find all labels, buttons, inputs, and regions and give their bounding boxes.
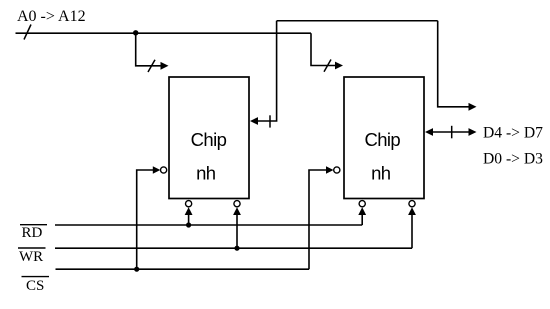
bus-width slash on address bus (24, 25, 31, 40)
arrowhead into U2 address input (335, 62, 343, 70)
arrowhead into U2 data port (left) (425, 128, 433, 136)
wire bus elbow down-right into chip U2 address input (311, 33, 336, 65)
wire CS up-right to U1 select input (137, 170, 154, 269)
arrowhead WR into U1 (up) (233, 207, 241, 215)
node junction dot RD to U1 (186, 222, 191, 227)
inverter bubble CS U1 (161, 167, 167, 173)
svg-text:CS: CS (26, 278, 44, 294)
wire bus tap down-right into chip U1 address input (136, 33, 162, 66)
wire CS line horizontal (56, 268, 310, 270)
wire RD line horizontal (55, 224, 362, 226)
svg-text:D4 -> D7: D4 -> D7 (483, 125, 543, 142)
wire RD up to U1 (188, 214, 190, 226)
inverter bubble WR U2 (409, 201, 415, 207)
wire top data link horizontal (277, 20, 438, 22)
overline of RD label (20, 224, 47, 226)
svg-text:D0 -> D3: D0 -> D3 (483, 151, 543, 168)
chip U1 box (169, 77, 249, 199)
arrowhead into U1 data port (250, 117, 258, 125)
wire RD end up to U2 (361, 214, 363, 226)
svg-text:nh: nh (196, 162, 216, 183)
wire WR up to U1 (236, 214, 238, 249)
wire WR line horizontal (55, 247, 412, 249)
overline of WR label (18, 247, 46, 249)
svg-text:A0 -> A12: A0 -> A12 (17, 8, 86, 25)
arrowhead external (right) on U2 data link (469, 128, 477, 136)
overline of CS label (22, 276, 50, 278)
node junction dot WR to U1 (234, 246, 239, 251)
arrowhead RD into U2 (up) (358, 207, 366, 215)
inverter bubble CS U2 (334, 167, 340, 173)
bus-width slash on U2 address tap (324, 60, 331, 72)
tick mark on U1 data line (269, 115, 271, 127)
wire WR end up to U2 (411, 214, 413, 249)
wire CS end up-right to U2 select input (309, 170, 327, 269)
arrowhead CS into U1 select (153, 166, 161, 173)
svg-text:WR: WR (19, 249, 43, 265)
wire vertical from top link down to U1 data port (258, 21, 277, 121)
arrowhead external data out (469, 103, 477, 111)
arrowhead WR into U2 (up) (408, 207, 416, 215)
inverter bubble WR U1 (234, 201, 240, 207)
svg-text:nh: nh (371, 162, 391, 183)
arrowhead RD into U1 (up) (185, 207, 193, 215)
chip U2 box (344, 77, 424, 199)
wire vertical from top link down to external data arrow (438, 21, 469, 107)
tick mark on U2 data link (451, 126, 453, 139)
wire address bus horizontal (16, 32, 312, 34)
inverter bubble RD U1 (186, 201, 192, 207)
wire U2 bidirectional data link (432, 131, 469, 133)
svg-text:RD: RD (22, 225, 43, 241)
arrowhead CS into U2 select (326, 166, 334, 173)
bus-width slash on U1 address tap (148, 60, 155, 72)
node junction dot on address bus (133, 30, 138, 35)
node junction dot CS to U1 (134, 267, 139, 272)
arrowhead into U1 address input (161, 62, 169, 70)
svg-text:Chip: Chip (191, 129, 227, 150)
inverter bubble RD U2 (359, 201, 365, 207)
svg-text:Chip: Chip (364, 129, 400, 150)
